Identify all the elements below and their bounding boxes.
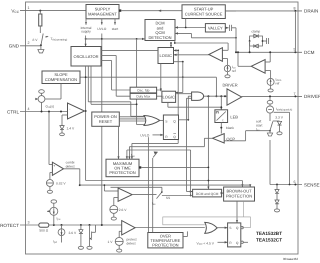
svg-text:Ipu: Ipu bbox=[57, 217, 61, 222]
svg-text:UVLO: UVLO bbox=[97, 27, 106, 31]
svg-text:VCC: VCC bbox=[11, 8, 19, 14]
svg-text:DRAIN: DRAIN bbox=[304, 9, 318, 14]
svg-text:LOGIC: LOGIC bbox=[162, 94, 175, 99]
svg-text:DCM: DCM bbox=[304, 50, 315, 55]
svg-text:-: - bbox=[54, 172, 55, 176]
svg-text:GND: GND bbox=[9, 44, 20, 49]
svg-text:PROTECTION: PROTECTION bbox=[152, 243, 178, 248]
svg-text:Ipd: Ipd bbox=[53, 240, 57, 245]
svg-text:Duty Max: Duty Max bbox=[136, 95, 150, 99]
svg-text:detect: detect bbox=[66, 165, 75, 169]
svg-text:TEA1532CT: TEA1532CT bbox=[256, 238, 282, 243]
svg-text:Gm(s): Gm(s) bbox=[46, 105, 55, 110]
svg-text:Q: Q bbox=[236, 241, 239, 245]
svg-text:UVLO: UVLO bbox=[140, 134, 149, 138]
svg-text:+: + bbox=[53, 164, 55, 168]
svg-text:3: 3 bbox=[28, 220, 30, 224]
svg-text:3.6 V: 3.6 V bbox=[69, 231, 77, 235]
svg-text:PROTECT: PROTECT bbox=[0, 223, 19, 228]
svg-text:clamp: clamp bbox=[251, 30, 260, 34]
svg-text:001aaa462: 001aaa462 bbox=[283, 257, 298, 261]
svg-text:supply: supply bbox=[81, 30, 91, 34]
svg-text:500 Ω: 500 Ω bbox=[39, 229, 48, 233]
svg-text:Q: Q bbox=[173, 135, 176, 139]
svg-text:blank: blank bbox=[226, 126, 234, 130]
svg-text:TEA1532BT: TEA1532BT bbox=[256, 231, 282, 236]
svg-text:start: start bbox=[256, 124, 262, 128]
svg-text:CTRL: CTRL bbox=[7, 109, 19, 114]
svg-text:DCM and QCM: DCM and QCM bbox=[196, 192, 219, 196]
svg-text:Q: Q bbox=[236, 226, 239, 230]
svg-text:SENSE: SENSE bbox=[304, 182, 320, 187]
svg-text:ref: ref bbox=[276, 82, 280, 86]
svg-text:6: 6 bbox=[294, 180, 296, 184]
svg-text:Q: Q bbox=[173, 119, 176, 123]
svg-text:1.4 V: 1.4 V bbox=[67, 127, 75, 131]
svg-text:t: t bbox=[223, 118, 224, 122]
svg-text:detect: detect bbox=[127, 242, 136, 246]
svg-text:DETECTION: DETECTION bbox=[148, 35, 171, 40]
svg-text:1 V: 1 V bbox=[108, 240, 114, 244]
svg-text:PROTECTION: PROTECTION bbox=[226, 194, 252, 199]
svg-text:0.82 V: 0.82 V bbox=[56, 182, 66, 186]
svg-text:ref: ref bbox=[232, 69, 236, 73]
svg-text:Tth(operating): Tth(operating) bbox=[51, 37, 68, 42]
svg-text:7: 7 bbox=[294, 92, 296, 96]
svg-text:2: 2 bbox=[28, 41, 30, 45]
svg-text:MANAGEMENT: MANAGEMENT bbox=[88, 11, 117, 16]
svg-text:CURRENT SOURCE: CURRENT SOURCE bbox=[185, 12, 223, 17]
svg-text:LOGIC: LOGIC bbox=[159, 53, 172, 58]
svg-text:OSCILLATOR: OSCILLATOR bbox=[74, 54, 99, 59]
svg-text:1: 1 bbox=[28, 6, 30, 10]
svg-text:PROTECTION: PROTECTION bbox=[109, 170, 135, 175]
svg-text:Isink(squelch): Isink(squelch) bbox=[276, 107, 292, 112]
svg-text:LEB: LEB bbox=[230, 115, 238, 120]
svg-text:start: start bbox=[112, 27, 118, 31]
svg-text:4: 4 bbox=[28, 107, 30, 111]
svg-text:2.6 V: 2.6 V bbox=[119, 208, 127, 212]
svg-text:RESET: RESET bbox=[99, 119, 113, 124]
svg-text:8: 8 bbox=[294, 6, 296, 10]
svg-text:8 V: 8 V bbox=[33, 38, 39, 42]
svg-text:Osc. fdp: Osc. fdp bbox=[137, 88, 149, 92]
svg-text:3.3 V: 3.3 V bbox=[275, 115, 283, 119]
svg-text:DRIVER: DRIVER bbox=[304, 94, 320, 99]
svg-text:DRIVER: DRIVER bbox=[223, 83, 238, 88]
svg-text:COMPENSATION: COMPENSATION bbox=[45, 77, 77, 82]
svg-text:VALLEY: VALLEY bbox=[208, 26, 223, 31]
